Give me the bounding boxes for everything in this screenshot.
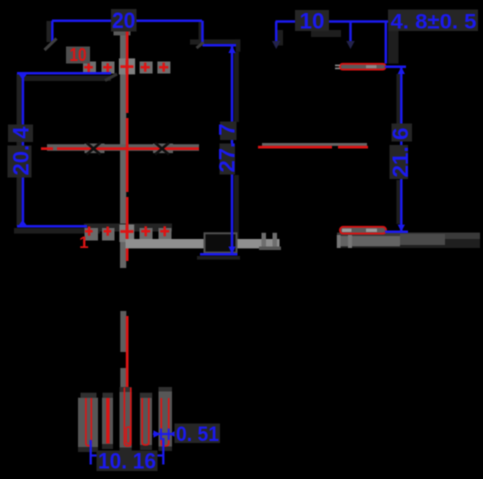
sideview shadow: right of 10-dim left extension [278,30,284,46]
blue dim 10.16 right extension [162,438,164,465]
red center cross top [120,60,133,74]
bottom view pin P2 cap [103,393,114,398]
pin nubs on bar A right end [262,233,267,250]
svg-text:27. 7: 27. 7 [215,124,240,173]
centerline halo: vertical band segment above bottom view [120,368,126,392]
sideview shadow: left of 21.6 vertical upper [396,74,400,124]
red center cross bottom [120,225,133,239]
red plus markers top row [84,63,168,74]
outline shadow: below 27.7 bottom horizontal [197,256,240,260]
red pin P5 outline [161,398,168,446]
dark arrow at 10-dim middle extension [346,41,354,49]
blue dim 21.6 text halo boxes [392,124,413,142]
sideview red bar top (flange) [340,64,386,70]
blue dim 20 text halo box [111,9,137,32]
blue dim 0.51 text halo box [175,424,221,444]
red plus markers bottom row [85,226,169,236]
blue dim 20: right extension [201,21,204,46]
pin marker M2 top halo box [102,62,115,74]
blue arrow 27.7 bottom [228,247,235,254]
sideview shadow: right of 4.8 extension [388,30,399,64]
outline shadow: footprint bottom edge [14,228,100,234]
blue 10-dim left extension [275,22,278,42]
blue dim 10.16 left extension [90,440,92,465]
bottom view pin P3 under strip [120,448,132,453]
pin marker M2 bottom halo box [102,228,115,241]
hole X mark left (dark X on band patch) [85,143,105,155]
blue dim 20: main line [52,21,236,46]
centerline halo: footprint horizontal band [47,144,199,151]
outline shadow: left of 20 right extension [199,21,202,44]
pin marker M4 bottom halo box [140,228,153,241]
blue dim 27.7: vertical dim line [231,46,234,254]
outline shadow: right of 27.7 vertical upper [234,52,239,122]
blue arrow pointing left at pin5 [169,430,176,437]
svg-text:1: 1 [79,233,88,252]
black block on bar A [205,233,237,252]
PCB bar A (left, under footprint) [126,239,280,248]
svg-text:10: 10 [70,45,87,65]
red pin P3 outline [124,388,130,447]
blue arrow 21.6 top [398,67,405,74]
blue 4.8-dim right extension [385,22,388,64]
svg-text:10. 16: 10. 16 [98,449,156,474]
svg-text:0. 51: 0. 51 [176,423,219,446]
bottom view pin P1 gray box [78,398,98,447]
centerline halo: footprint vertical band [120,31,126,268]
centerline red: sideview horizontal segments [258,146,368,149]
sideview shadow: left of 21.6 vertical lower [396,180,400,224]
pin marker center top halo box [119,58,135,74]
red pin P2 filled [106,398,109,444]
blue dim 4.8±0.5 text halo box [388,10,478,32]
outline shadow: footprint top edge [17,76,111,81]
svg-text:4. 8±0. 5: 4. 8±0. 5 [391,11,477,34]
blue 10-dim middle extension [349,22,352,42]
bottom view pin P5 under strip [159,447,173,452]
blue dim 20.4: vertical dim line [22,73,25,226]
bottom view pin P2 under strip [102,444,113,449]
blue dim 20-to-27.7 jog horizontal [203,44,237,47]
red dim text 10 halo box [66,47,90,64]
blue arrow at 20.4 bottom [18,220,27,226]
bottom view pin P3 cap [120,387,132,392]
blue dim 10.16 line [91,454,164,456]
sideview shadow: top edge of relay body [311,30,341,37]
oblique tick at 20 right end [197,43,204,49]
bottom view pin P3 gray box [120,392,132,448]
blue dim 10/4.8 top line [276,22,389,64]
pin marker M5 top halo box [157,62,170,74]
hole X mark right (dark X on band patch) [153,143,173,155]
blue dim 10 text halo box [295,10,329,31]
centerline halo: vertical band segment under footprint [120,311,126,352]
outline shadow: under bottom marker row [84,224,172,232]
bottom view pin P4 under strip [140,445,152,450]
blue dim 27.7: bottom extension [200,253,238,256]
outline shadow: right of 27.7 vertical lower [234,175,239,246]
PCB bar B (right, under sideview) [337,233,480,240]
blue dim 20.4: top extension line [17,73,111,226]
blue arrow 27.7 top [228,46,235,53]
blue dim 20.4: bottom extension line [17,225,87,228]
blue pin-width leader line [153,433,177,435]
pin marker M4 top halo box [140,62,153,74]
outline shadow: left of 20.4 vertical [17,74,22,226]
blue dim 21.6: top tick [385,66,406,69]
centerline halo: sideview horizontal band [262,143,367,146]
svg-text:10: 10 [300,8,325,33]
pin marker M1 top halo box [83,62,96,74]
bottom view pin P5 cap [159,387,173,392]
oblique tick at 20 left end [45,39,57,51]
pin marker M1 bottom halo box [85,228,99,241]
outline shadow: left of 20 left extension [47,21,51,42]
centerline halo: top cap blob [114,30,131,35]
blue arrow 21.6 bottom [398,225,405,232]
gray dashes left of top red bar [335,65,340,67]
red pin P1 outline [86,398,91,446]
blue arrow at 20.4 top [18,74,27,80]
pin marker M5 bottom halo box [159,228,172,241]
sideview red bar bottom (flange) [340,227,386,234]
blue dim 21.6: vertical dim line [400,67,403,232]
blue dim 20: left extension [51,21,54,42]
blue tick at pin5 left edge [160,429,162,441]
dark arrow at 10-dim left extension [272,41,280,49]
red pin P3 inner tip [126,427,130,444]
outline shadow: above 27.7 top horizontal [190,39,240,44]
oblique tick at 20.4 top right end [105,74,117,81]
blue dim 21.6: bottom tick [385,231,408,234]
bottom view pin P1 cap [81,393,97,398]
svg-text:20: 20 [112,8,136,33]
outline shadow: corner block right of 27.7 arrow [236,39,241,51]
bottom view pin P2 gray box [102,398,113,444]
bottom view pin P4 cap [140,393,152,398]
blue dim 20.4 text halo boxes [8,125,33,143]
bottom view pin P4 gray box [140,398,152,445]
centerline red: footprint horizontal segments [41,147,199,150]
red pin P4 outline [142,398,149,445]
bottom view pin P1 under strip [78,447,98,452]
svg-text:21. 6: 21. 6 [388,128,413,178]
blue dim 10.16 text halo box [97,451,158,472]
pin marker center bottom halo box [119,225,134,243]
blue dim 27.7 text halo boxes [220,122,237,141]
blue tick at pin5 right edge [168,429,170,441]
bottom view pin P5 gray box [159,392,173,447]
svg-text:20. 4: 20. 4 [9,126,34,176]
pin nubs under sideview red bar [337,235,341,248]
blue arrow pointing right at pin5 [154,430,161,437]
centerline red: footprint vertical segments [126,31,129,388]
